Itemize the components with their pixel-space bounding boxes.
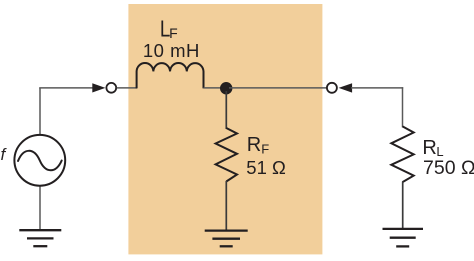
wire: source top vertical xyxy=(39,88,41,135)
wire: terminal to inductor xyxy=(117,87,137,89)
arrow into input terminal xyxy=(92,83,105,92)
svg-text:F: F xyxy=(261,141,269,156)
resistor RL zigzag xyxy=(391,126,413,182)
arrow into output terminal (pointing left) xyxy=(339,83,353,92)
wire: source bottom vertical to ground xyxy=(39,186,41,230)
wire: RF to ground xyxy=(225,181,227,230)
wire: junction down to RF xyxy=(225,91,227,129)
resistor RF zigzag xyxy=(216,128,237,182)
wire: RL to ground xyxy=(402,182,404,228)
svg-text:R: R xyxy=(247,134,261,156)
svg-text:51 Ω: 51 Ω xyxy=(246,157,286,178)
ground (source) xyxy=(19,230,61,246)
wire: right corner down to RL xyxy=(402,87,404,127)
svg-text:750 Ω: 750 Ω xyxy=(423,157,474,179)
svg-text:F: F xyxy=(169,25,178,41)
wire: arrow to right corner xyxy=(351,87,403,89)
AC source U1 circle xyxy=(14,135,65,186)
input terminal (open circle) xyxy=(106,83,116,93)
junction node dot xyxy=(220,82,232,94)
svg-text:R: R xyxy=(422,137,436,159)
wire: top horizontal from source to arrow xyxy=(39,87,93,89)
svg-text:10 mH: 10 mH xyxy=(143,40,200,61)
filter shaded region (tan box) xyxy=(128,4,322,254)
inductor LF xyxy=(137,63,204,88)
ground (RF) xyxy=(205,231,248,247)
ground (RL) xyxy=(383,229,424,247)
wire: inductor to junction xyxy=(204,87,225,89)
wire: junction to output terminal xyxy=(229,87,327,89)
AC source sine wave xyxy=(18,151,62,170)
output terminal (open circle) xyxy=(327,83,337,93)
